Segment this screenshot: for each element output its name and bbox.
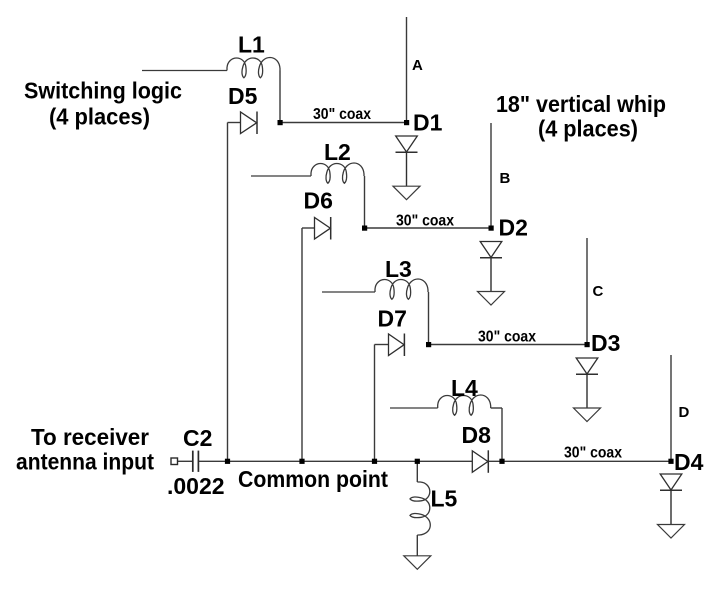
svg-text:A: A xyxy=(412,57,423,74)
node at L1/D5/coax junction xyxy=(278,120,283,125)
wire D6 anode vertical xyxy=(301,228,303,461)
svg-text:Switching logic: Switching logic xyxy=(24,78,182,104)
svg-text:D6: D6 xyxy=(304,188,333,214)
node at D7 vertical / common xyxy=(372,459,377,464)
svg-text:L2: L2 xyxy=(324,139,351,165)
inductor L4 xyxy=(390,395,502,461)
node at L4/D8 junction xyxy=(499,459,504,464)
svg-text:.0022: .0022 xyxy=(167,473,225,499)
svg-text:30" coax: 30" coax xyxy=(478,329,536,346)
diode D3 xyxy=(576,358,598,408)
inductor L1 xyxy=(142,58,280,123)
svg-text:D4: D4 xyxy=(674,449,704,475)
svg-text:D1: D1 xyxy=(413,110,443,136)
terminal square (to receiver) xyxy=(171,458,178,465)
ground below D1 xyxy=(393,186,420,200)
svg-text:30" coax: 30" coax xyxy=(313,106,371,123)
capacitor C2 xyxy=(193,451,199,472)
wire whip D xyxy=(670,355,672,461)
svg-text:D5: D5 xyxy=(228,83,258,109)
node at L5 / common xyxy=(415,459,420,464)
svg-text:L1: L1 xyxy=(238,32,265,58)
inductor L5 xyxy=(410,461,430,556)
svg-text:30" coax: 30" coax xyxy=(396,213,454,230)
svg-text:(4 places): (4 places) xyxy=(538,116,638,142)
wire whip C xyxy=(586,238,588,345)
node at whip B / D2 xyxy=(489,226,494,231)
diode D4 xyxy=(660,474,682,525)
node at C2 / D5 vertical xyxy=(225,459,230,464)
svg-text:Common point: Common point xyxy=(238,466,388,492)
svg-text:B: B xyxy=(500,170,511,187)
wire whip B xyxy=(490,123,492,228)
ground below D3 xyxy=(574,408,601,422)
svg-text:D7: D7 xyxy=(378,306,407,332)
wire coax row 3 xyxy=(429,344,588,346)
wire whip A xyxy=(406,17,408,123)
wire coax row 2 xyxy=(365,227,492,229)
wire C2 input lead xyxy=(178,460,193,462)
node at L2/D6/coax junction xyxy=(362,226,367,231)
wire D6 anode stub xyxy=(302,227,315,229)
svg-text:D3: D3 xyxy=(591,330,620,356)
svg-text:To receiver: To receiver xyxy=(31,424,149,450)
node at whip D / D4 xyxy=(668,459,673,464)
svg-text:D: D xyxy=(679,404,690,421)
diode D8 xyxy=(472,450,488,473)
wire common line xyxy=(198,460,472,462)
diode D5 xyxy=(241,112,258,135)
diode D6 xyxy=(315,217,331,240)
inductor L2 xyxy=(251,163,365,228)
svg-text:30" coax: 30" coax xyxy=(564,445,622,462)
svg-text:L3: L3 xyxy=(385,256,412,282)
svg-text:antenna input: antenna input xyxy=(16,449,154,475)
wire coax row 1 xyxy=(280,122,407,124)
wire D5 anode stub xyxy=(228,122,241,124)
wire D7 anode vertical xyxy=(374,345,376,462)
svg-text:(4 places): (4 places) xyxy=(49,104,150,130)
ground below D4 xyxy=(658,525,685,539)
svg-text:18" vertical whip: 18" vertical whip xyxy=(496,91,666,117)
wire coax row 4 xyxy=(489,460,672,462)
node at D6 vertical / common xyxy=(299,459,304,464)
node at whip C / D3 xyxy=(585,342,590,347)
svg-text:D8: D8 xyxy=(462,422,492,448)
ground below L5 xyxy=(404,556,431,570)
diode D7 xyxy=(389,334,405,357)
wire D7 anode stub xyxy=(375,344,389,346)
inductor L3 xyxy=(322,279,429,345)
diode D2 xyxy=(480,242,502,292)
svg-text:L4: L4 xyxy=(451,375,478,401)
svg-text:D2: D2 xyxy=(499,215,528,241)
svg-text:C: C xyxy=(593,283,604,300)
svg-text:C2: C2 xyxy=(183,425,212,451)
node at whip A / D1 xyxy=(404,120,409,125)
ground below D2 xyxy=(478,292,505,306)
svg-text:L5: L5 xyxy=(431,486,458,512)
wire D5 anode vertical xyxy=(227,123,229,462)
diode D1 xyxy=(396,136,418,186)
node at L3/D7/coax junction xyxy=(426,342,431,347)
